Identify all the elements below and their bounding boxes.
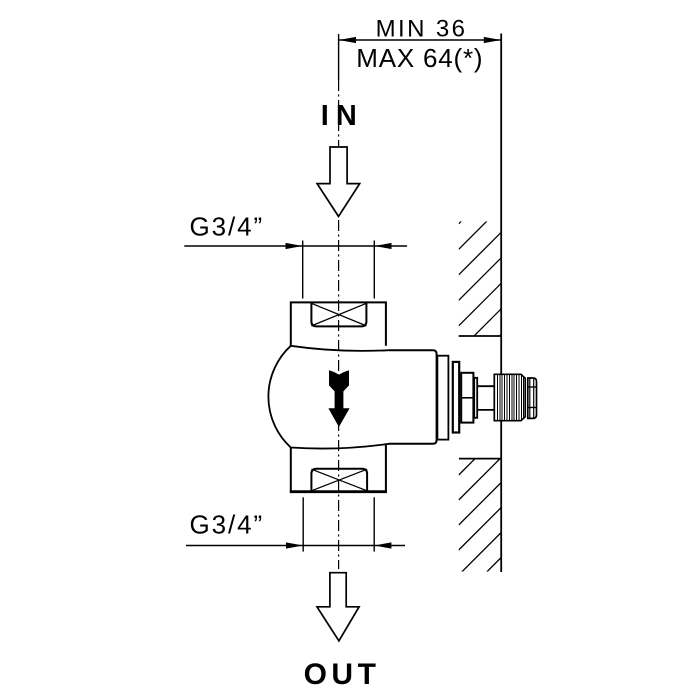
valve body outline — [268, 346, 389, 449]
valve top flange — [291, 302, 386, 345]
end cap inner vertical line 2 — [533, 378, 535, 418]
svg-text:G3/4”: G3/4” — [190, 211, 265, 241]
dimension arrow right — [484, 37, 501, 43]
stem lower line — [477, 409, 494, 411]
dimension G3/4 bottom: extension line left — [302, 497, 304, 551]
knurl ridges — [497, 374, 523, 420]
cartridge ring D — [474, 378, 477, 418]
svg-text:MAX 64(*): MAX 64(*) — [356, 43, 483, 73]
bottom flange face (heavy line) — [290, 490, 387, 493]
cartridge body C — [461, 373, 473, 423]
dimension G3/4 bottom: arrow pointing right — [286, 542, 303, 548]
svg-text:OUT: OUT — [304, 658, 381, 691]
svg-text:IN: IN — [321, 100, 364, 132]
knob end cap — [528, 378, 537, 418]
dimension G3/4 top: arrow pointing right — [286, 243, 303, 249]
svg-text:MIN 36: MIN 36 — [376, 15, 468, 42]
dimension G3/4 top: dimension line — [184, 245, 407, 247]
bottom thread seal box with X — [311, 469, 367, 491]
dimension G3/4 bottom: extension line right — [373, 497, 375, 551]
cartridge body C split line — [461, 397, 473, 399]
svg-text:G3/4”: G3/4” — [190, 510, 265, 540]
wall hole lower edge — [459, 458, 501, 460]
outlet flow arrow (hollow) — [317, 573, 359, 641]
wall hatch upper section — [459, 180, 503, 377]
wall hatch lower section — [459, 431, 503, 600]
dimension G3/4 top: arrow pointing left — [375, 243, 392, 249]
dimension G3/4 bottom: dimension line — [186, 545, 405, 547]
flow direction arrow (solid) — [328, 370, 349, 427]
wall hole upper edge — [459, 335, 502, 337]
dimension G3/4 top: extension line left — [302, 241, 304, 299]
dimension G3/4 top: extension line right — [373, 241, 375, 299]
end cap horizontal line upper — [528, 386, 537, 388]
end cap inner vertical line 1 — [529, 378, 531, 418]
knurled knob body — [494, 374, 525, 420]
centerline (vertical dash-dot axis) — [338, 34, 340, 80]
end cap horizontal line lower — [528, 407, 537, 409]
wall face line — [500, 34, 502, 573]
stem upper line — [477, 385, 494, 387]
cartridge ring A — [437, 356, 448, 440]
dimension MIN36/MAX64 line — [339, 39, 502, 41]
dimension G3/4 bottom: arrow pointing left — [374, 542, 391, 548]
cartridge housing — [389, 350, 437, 444]
inlet flow arrow (hollow) — [317, 147, 360, 216]
cartridge flange B — [453, 362, 459, 433]
valve bottom flange — [291, 445, 386, 492]
dimension arrow left — [339, 37, 356, 43]
top thread seal box with X — [311, 302, 366, 326]
